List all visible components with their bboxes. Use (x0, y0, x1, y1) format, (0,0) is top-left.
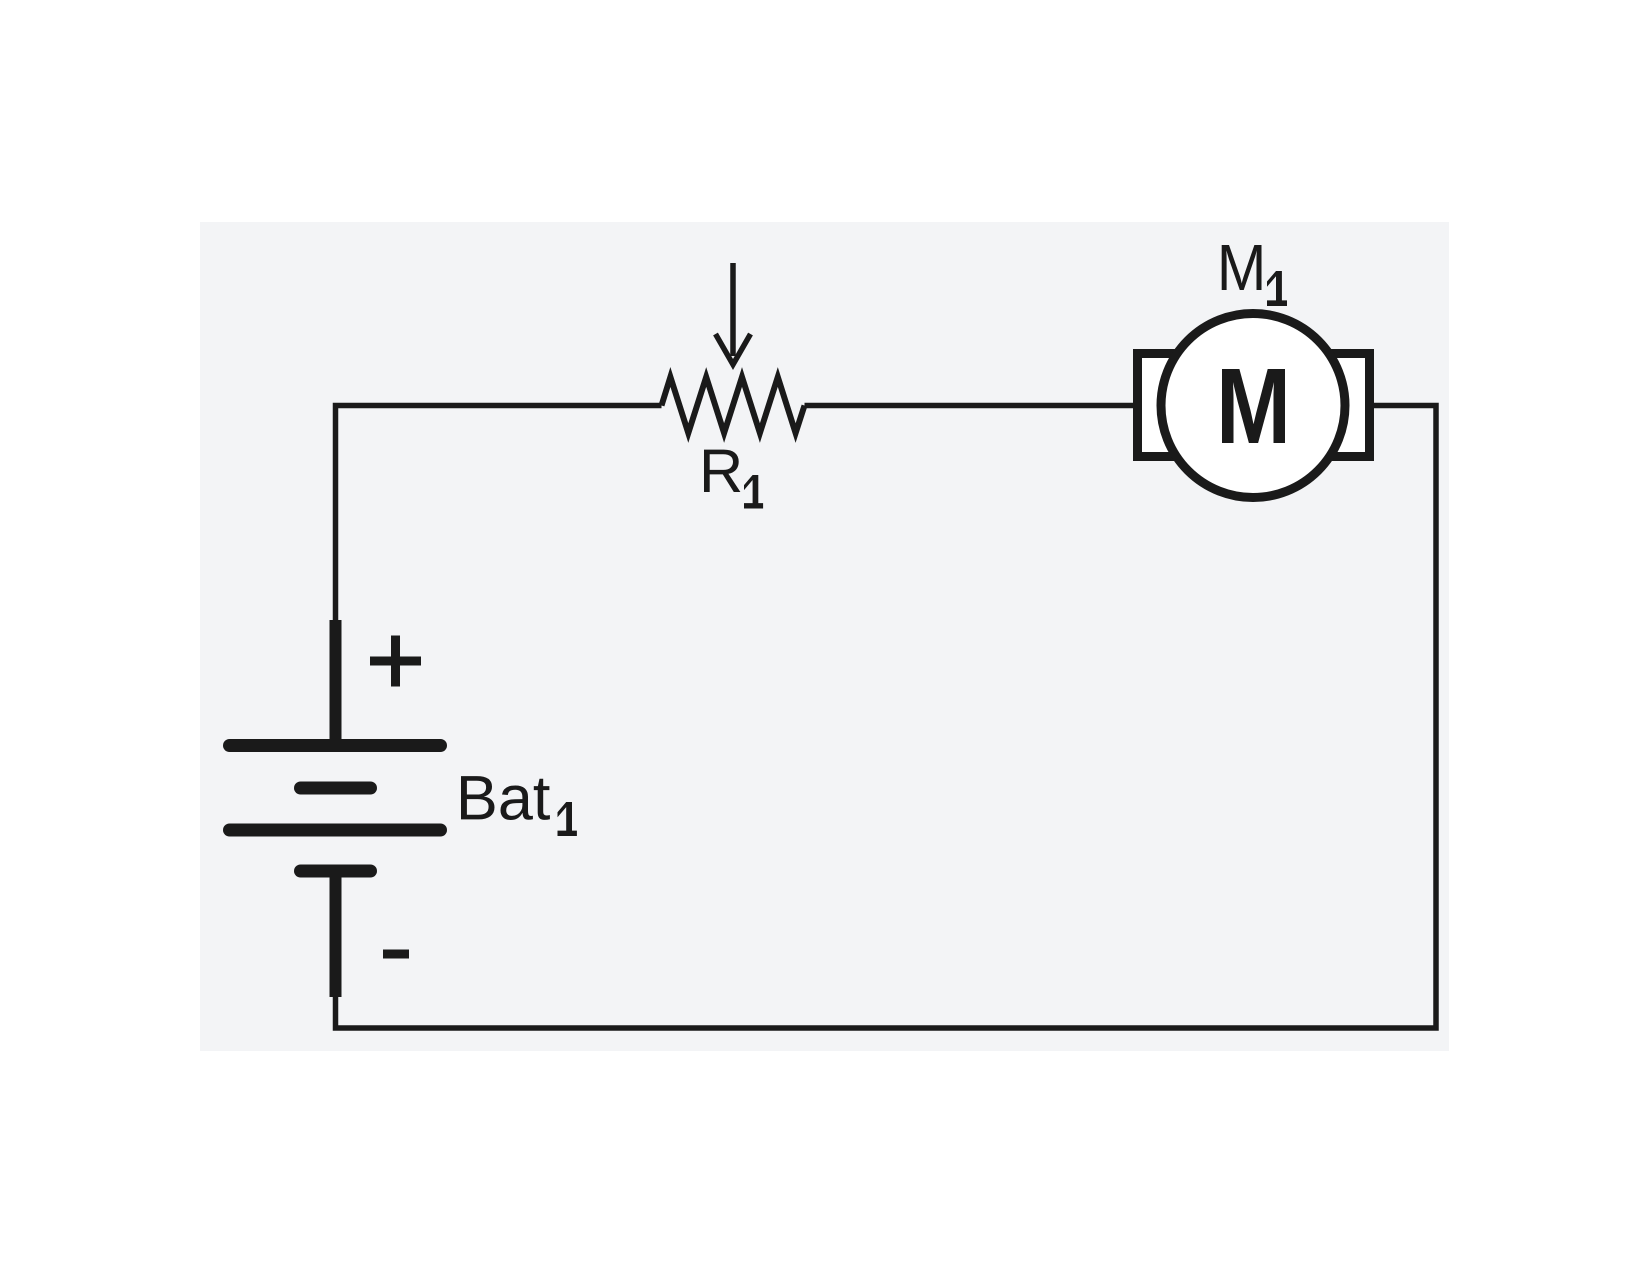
label M1 (1222, 245, 1262, 290)
label Bat1 (461, 776, 550, 820)
motor M1 brush terminals (1138, 354, 1208, 457)
wire: battery positive terminal up left side and along top to R1 (336, 406, 662, 623)
wire: R1 to motor M1 (805, 403, 1134, 409)
battery Bat1 positive lead (330, 620, 342, 745)
battery plate long 1 (230, 739, 441, 752)
motor M1 body circle (1161, 314, 1345, 498)
panel (200, 222, 1449, 1051)
battery plate long 2 (230, 824, 441, 837)
resistor R1 (rheostat zigzag) (662, 377, 805, 433)
battery plate short 1 (301, 782, 371, 795)
plus polarity mark (370, 657, 421, 666)
value label R1 (704, 450, 740, 492)
wiper arrow of rheostat R1 (730, 263, 736, 356)
wire: motor M1 right side, down and along bottom back to battery negative (336, 406, 1437, 1029)
battery bottom lead (330, 871, 342, 997)
battery plate short 2 (301, 865, 371, 878)
minus polarity mark (383, 950, 409, 959)
motor M1 letter M (1222, 369, 1285, 443)
